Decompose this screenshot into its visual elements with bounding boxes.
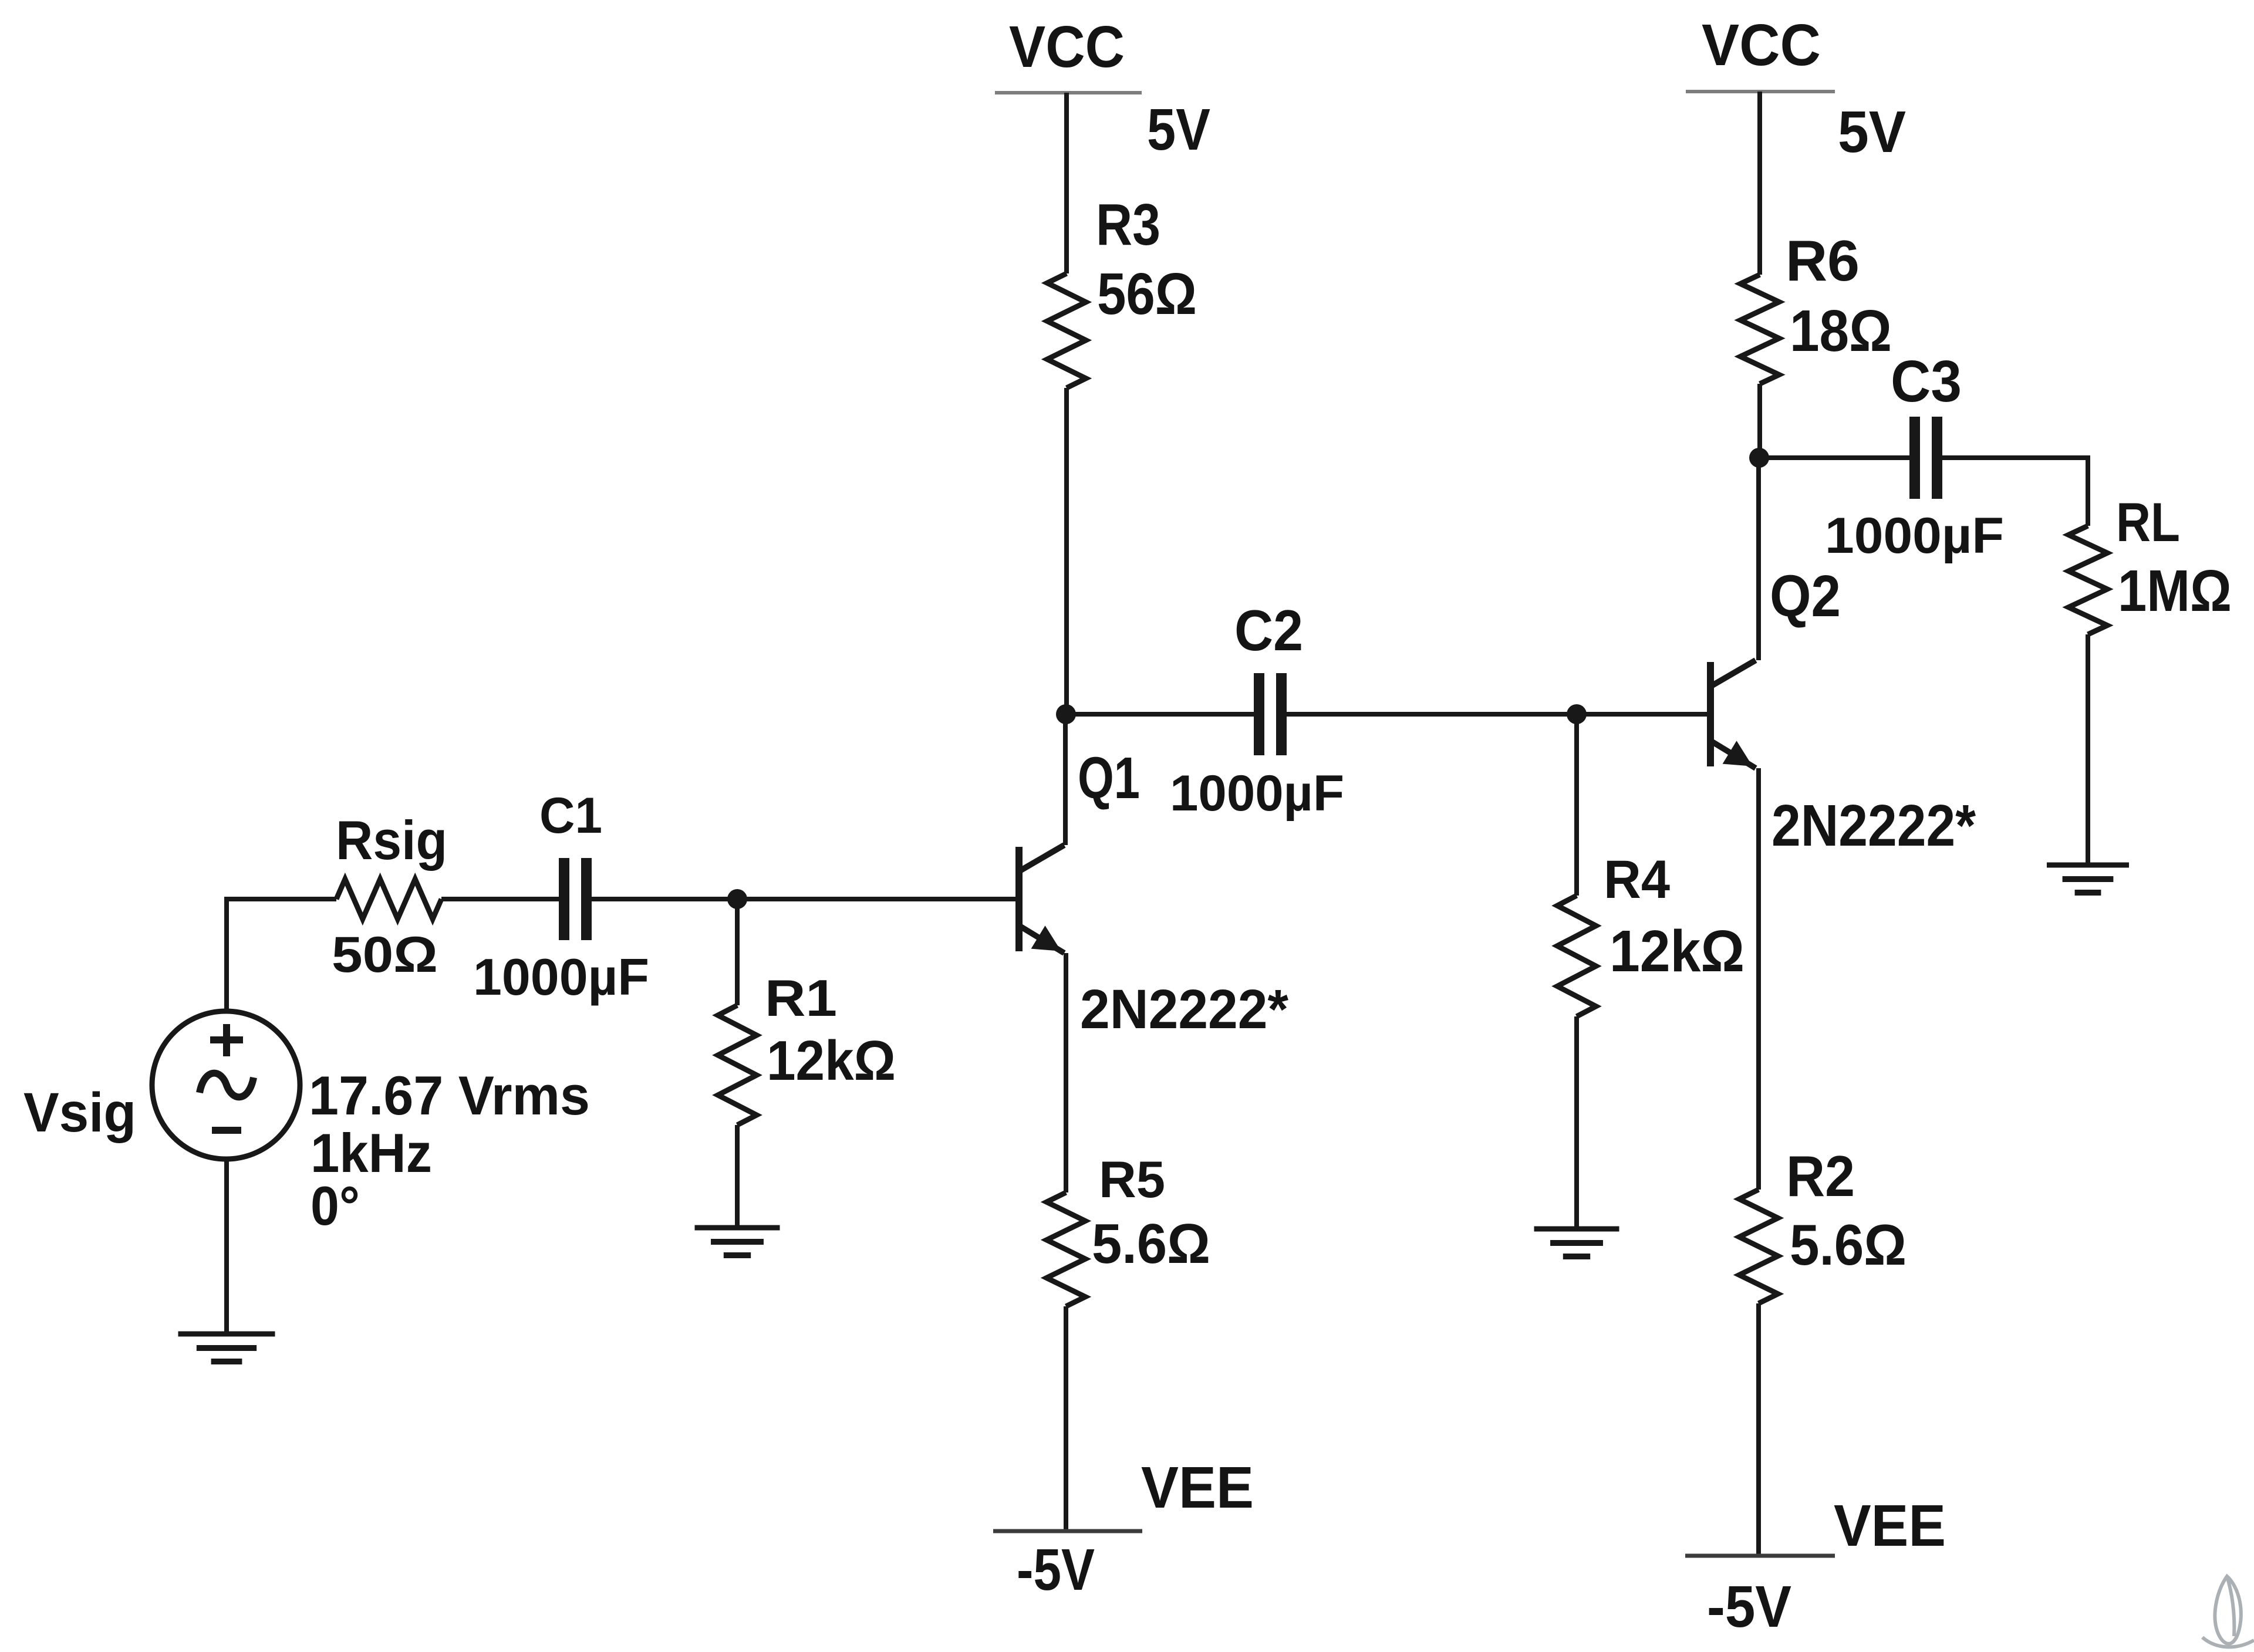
svg-text:C1: C1 (539, 788, 602, 844)
svg-text:12kΩ: 12kΩ (767, 1029, 896, 1092)
svg-text:R6: R6 (1786, 228, 1860, 293)
svg-text:17.67 Vrms: 17.67 Vrms (309, 1065, 590, 1126)
svg-text:Rsig: Rsig (336, 809, 447, 871)
svg-text:R2: R2 (1786, 1144, 1855, 1208)
svg-text:1000µF: 1000µF (473, 948, 649, 1006)
svg-text:1000µF: 1000µF (1825, 508, 2004, 564)
svg-text:2N2222*: 2N2222* (1080, 978, 1288, 1040)
svg-text:12kΩ: 12kΩ (1609, 918, 1745, 984)
svg-text:5.6Ω: 5.6Ω (1790, 1212, 1907, 1277)
svg-text:Vsig: Vsig (23, 1082, 136, 1144)
svg-text:RL: RL (2116, 491, 2180, 553)
svg-text:0°: 0° (311, 1175, 360, 1237)
svg-text:R4: R4 (1604, 850, 1670, 910)
svg-text:C3: C3 (1891, 349, 1962, 414)
svg-text:VEE: VEE (1141, 1455, 1254, 1521)
svg-text:VCC: VCC (1702, 12, 1821, 78)
svg-text:56Ω: 56Ω (1097, 261, 1197, 327)
svg-text:VEE: VEE (1834, 1493, 1946, 1559)
svg-text:VCC: VCC (1009, 14, 1125, 80)
svg-text:R3: R3 (1096, 192, 1160, 258)
svg-text:Q1: Q1 (1078, 745, 1140, 811)
svg-text:R5: R5 (1099, 1150, 1165, 1208)
svg-text:Q2: Q2 (1770, 563, 1841, 629)
svg-text:50Ω: 50Ω (332, 927, 438, 983)
svg-text:1MΩ: 1MΩ (2118, 558, 2232, 624)
svg-text:5.6Ω: 5.6Ω (1092, 1212, 1210, 1275)
svg-text:2N2222*: 2N2222* (1772, 793, 1976, 859)
svg-text:1000µF: 1000µF (1170, 765, 1344, 822)
svg-text:5V: 5V (1147, 97, 1210, 163)
svg-text:-5V: -5V (1017, 1537, 1095, 1603)
svg-text:18Ω: 18Ω (1790, 298, 1892, 364)
svg-text:5V: 5V (1838, 99, 1906, 165)
svg-text:-5V: -5V (1707, 1574, 1791, 1640)
svg-text:C2: C2 (1234, 598, 1303, 663)
svg-text:R1: R1 (765, 969, 837, 1027)
